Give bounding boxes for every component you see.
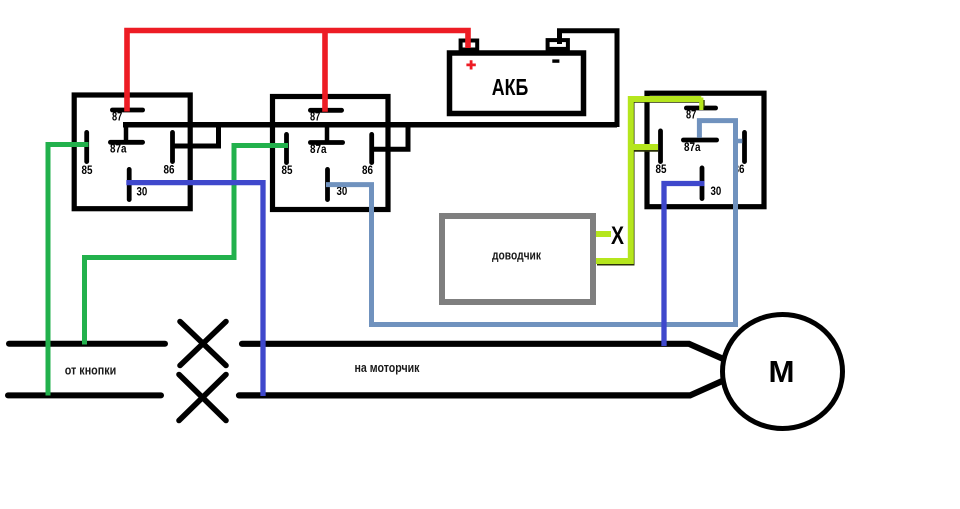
svg-text:М: М bbox=[769, 354, 795, 389]
wire lime stub companion to U3-85 bbox=[633, 150, 658, 152]
wire U2 87a to bus bbox=[325, 127, 330, 142]
pin 30 U2 bbox=[325, 169, 330, 199]
pin 86 U3 bbox=[742, 132, 747, 161]
pin 30 U3 bbox=[700, 168, 705, 199]
wire lime dovodchik to U3 87 bbox=[596, 99, 701, 261]
svg-text:86: 86 bbox=[164, 165, 175, 177]
wire blue U1-30 to motor line bbox=[126, 183, 263, 396]
wire green U1-85 to button line bbox=[48, 145, 89, 396]
battery minus label bbox=[552, 59, 559, 62]
svg-text:87a: 87a bbox=[310, 144, 327, 156]
wire lime stub to U3-85 bbox=[631, 144, 659, 150]
battery plus label bbox=[466, 60, 475, 69]
battery minus terminal bbox=[548, 40, 568, 49]
wire U2 86 hook to bus bbox=[372, 124, 408, 149]
svg-text:87a: 87a bbox=[110, 144, 127, 156]
svg-text:30: 30 bbox=[711, 186, 722, 198]
svg-text:85: 85 bbox=[656, 164, 668, 176]
svg-text:86: 86 bbox=[362, 165, 373, 177]
pin 87a U1 bbox=[110, 140, 142, 145]
wire red +12V bbox=[127, 31, 468, 112]
pin 87 U3 bbox=[686, 106, 715, 111]
wire blue-gray U2-30 to U3-87a bbox=[326, 121, 736, 325]
svg-text:87: 87 bbox=[112, 112, 122, 124]
motor line bottom bbox=[239, 380, 725, 395]
pin 85 U1 bbox=[84, 132, 89, 161]
svg-text:85: 85 bbox=[82, 165, 94, 177]
wire black battery minus riser bbox=[560, 31, 618, 127]
wire black bus 30/87a (horizontal) bbox=[123, 122, 617, 128]
pin 87a U2 bbox=[310, 140, 342, 145]
svg-text:87a: 87a bbox=[684, 142, 701, 154]
wire U1 87a to bus bbox=[124, 127, 129, 142]
cut mark X1 bbox=[180, 322, 226, 366]
wire U1 86 hook to bus bbox=[172, 124, 219, 146]
relay U2 (middle relay box) bbox=[273, 97, 389, 210]
wire red branch to U2 87 bbox=[322, 31, 328, 112]
pin 87 U1 bbox=[112, 108, 142, 113]
battery AKB box bbox=[450, 53, 584, 114]
cut mark X2 bbox=[179, 375, 226, 421]
motor M bbox=[723, 315, 843, 429]
svg-text:X: X bbox=[611, 222, 624, 250]
svg-text:30: 30 bbox=[137, 187, 148, 199]
wire lime dovodchik to X stub bbox=[596, 231, 611, 237]
wire green U2-85 to button line bbox=[85, 146, 289, 345]
svg-text:85: 85 bbox=[282, 165, 294, 177]
wire lime drop to pin 87 U3 bbox=[699, 98, 703, 111]
dovodchik module box bbox=[442, 216, 593, 302]
pin 87a U3 bbox=[683, 138, 716, 143]
wire lime dovodchik to U3 87/85 (black companion) bbox=[597, 100, 704, 264]
pin 86 U2 bbox=[369, 134, 374, 162]
pin 30 U1 bbox=[127, 169, 132, 199]
wire blue U3-30 to motor line bbox=[664, 184, 704, 347]
battery plus terminal bbox=[461, 41, 478, 50]
wire blue-gray stub to U3-86 bbox=[736, 139, 743, 144]
relay U3 pins bbox=[656, 108, 745, 199]
svg-text:от кнопки: от кнопки bbox=[65, 363, 117, 378]
button line bottom bbox=[8, 392, 161, 398]
svg-text:АКБ: АКБ bbox=[492, 74, 529, 100]
button line top (ot knopki) bbox=[9, 341, 165, 347]
relay U2 pins bbox=[282, 110, 374, 199]
pin 87 U2 bbox=[310, 108, 341, 113]
motor line top (na motorchik) bbox=[242, 344, 725, 360]
svg-text:87: 87 bbox=[310, 112, 320, 124]
svg-text:30: 30 bbox=[337, 186, 348, 198]
relay U1 pins bbox=[82, 110, 175, 200]
relay U3 (right relay box) bbox=[647, 93, 764, 207]
svg-text:доводчик: доводчик bbox=[492, 248, 541, 263]
svg-text:на моторчик: на моторчик bbox=[355, 360, 420, 375]
relay U1 (left relay box) bbox=[74, 95, 190, 209]
svg-text:87: 87 bbox=[686, 110, 696, 122]
pin 85 U2 bbox=[284, 134, 289, 162]
pin 85 U3 bbox=[658, 131, 663, 162]
pin 86 U1 bbox=[170, 132, 175, 161]
